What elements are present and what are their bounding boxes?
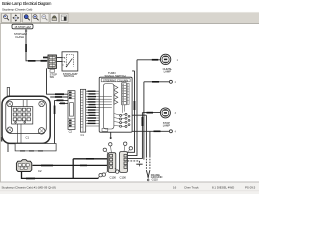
housing internal wires up [18,100,28,144]
svg-text:Stoplamp (Chassis Cab): Stoplamp (Chassis Cab) [2,7,32,11]
toolbar button print [50,13,58,22]
trunk wire labels [134,101,144,126]
branch wire down [72,159,74,179]
svg-text:LAMP: LAMP [164,70,172,74]
housing mount leg [7,143,9,152]
column connector strip left [68,91,75,134]
toolbar button zoom-in [31,13,40,22]
C100 labels [110,176,127,180]
wire junction to C100 upper [73,158,108,160]
toolbar button zoom-region [23,13,32,22]
svg-text:C100: C100 [120,176,127,180]
svg-text:C2: C2 [69,130,73,134]
internal wires in turn signal switch [99,97,112,108]
internal pin strip of turn signal switch [122,83,129,105]
toolbar button zoom-tool [2,13,11,22]
wires strip to turn signal switch [86,91,100,127]
svg-text:PS 09.5: PS 09.5 [245,185,256,189]
wire to connector ring lower [150,130,177,134]
vertical trunk wires [128,60,150,171]
svg-text:15 STOP HAZ: 15 STOP HAZ [14,25,31,29]
svg-text:SW: SW [50,75,55,79]
wires into left strip [47,68,69,143]
switch contacts inside turn signal switch [114,85,118,104]
housing screw circles [7,101,45,134]
toolbar [0,12,259,24]
hazard switch assembly housing [1,88,50,144]
toolbar button zoom-out [40,13,49,22]
wire to ground T [127,161,142,167]
frame ground arrow [146,170,162,181]
connector C1 stoplamp switch [48,55,57,79]
diagram bottom separator [0,181,259,183]
title text [2,1,52,11]
stub below turn signal switch [110,132,112,139]
connector C100 right half [120,152,128,173]
wire to connector ring upper [144,80,177,84]
internal pin cluster lower right [114,105,130,128]
svg-text:C1: C1 [81,133,85,137]
C100 balloon callouts [102,142,132,176]
svg-text:LAMP: LAMP [163,123,171,127]
CHMSL lamp [160,54,178,73]
svg-text:C2: C2 [38,169,42,173]
toolbar button report [60,13,68,22]
stoplamp switch box [57,52,78,78]
svg-text:SWITCH: SWITCH [64,74,75,78]
svg-text:16: 16 [173,185,177,189]
connector C100 left half [107,153,116,173]
wire bulkhead bottom run [22,172,103,180]
column connector strip right [80,89,85,132]
svg-text:8.1 DIESEL 4WD: 8.1 DIESEL 4WD [212,185,234,189]
switch body inside turn signal switch [103,84,114,130]
housing base plate [15,144,56,151]
internal label box [102,128,108,131]
housing terminal block [12,107,33,124]
fuse reference box [12,24,33,29]
label STOP/HAZ flasher [14,32,27,39]
wire bulkhead to C100 lower [33,165,108,167]
wire to CHMSL lamp [137,59,160,61]
svg-text:Brake Lamp: Electrical Diagram: Brake Lamp: Electrical Diagram [2,1,52,6]
svg-text:Stoplamp (Chassis Cab) #1 (MD-: Stoplamp (Chassis Cab) #1 (MD-09 Q)-(8) [2,185,56,189]
turn signal switch box [99,77,132,132]
diagram panel left border [0,24,2,182]
svg-text:C100: C100 [110,176,117,180]
stop/tail lamp [160,108,176,128]
housing label [26,135,30,139]
wire to stop lamp [142,112,160,114]
label turn signal switch [105,71,126,78]
svg-text:Chev Truck: Chev Truck [184,185,199,189]
status bar [0,183,259,195]
label C1 column connector [81,133,85,137]
wire fuse to stoplamp switch [25,29,47,62]
bulkhead connector (trapezoid) [16,160,42,173]
svg-text:FLASH: FLASH [16,35,24,39]
svg-text:C1: C1 [26,135,30,139]
toolbar button pan [11,13,20,22]
svg-text:STEERING COLUMN: STEERING COLUMN [103,78,128,82]
svg-text:G110: G110 [152,177,159,181]
